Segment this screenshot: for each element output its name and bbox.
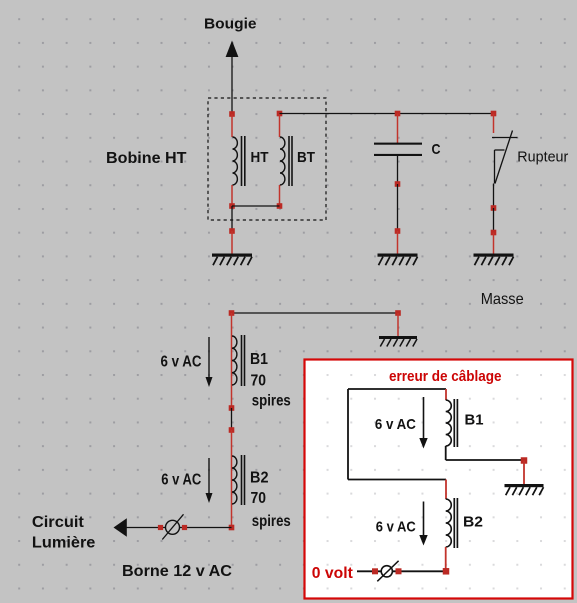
label B2 xyxy=(250,470,269,487)
inset pin B2 bottom xyxy=(445,547,447,571)
label BT xyxy=(297,149,315,166)
inset pin B1 top xyxy=(445,389,447,400)
inset label 6vAC lower xyxy=(376,519,416,536)
connector terminal (Borne) xyxy=(162,514,183,539)
svg-text:erreur de câblage: erreur de câblage xyxy=(389,368,502,385)
label B1 70 xyxy=(251,373,267,390)
node connector left xyxy=(158,525,163,530)
node HT top xyxy=(229,111,235,117)
label Lumiere xyxy=(32,535,96,552)
inductor B2 winding xyxy=(232,455,245,505)
inset label 0 volt xyxy=(312,565,354,582)
node B1 top xyxy=(229,310,235,316)
svg-text:70: 70 xyxy=(251,373,267,390)
svg-text:HT: HT xyxy=(251,149,269,166)
wire B1 top to Masse ground xyxy=(232,312,399,314)
wire HT-BT bottom link xyxy=(232,205,280,207)
label 6vAC lower xyxy=(161,472,201,489)
inset wire bottom horizontal xyxy=(348,479,446,481)
dashed box around Bobine HT xyxy=(208,98,326,220)
wire B2 red run xyxy=(231,430,233,528)
inductor BT winding xyxy=(280,136,292,186)
svg-text:Masse: Masse xyxy=(481,291,524,308)
inset node right xyxy=(521,457,528,464)
wire B1-B2 link xyxy=(231,408,233,430)
inset connector terminal xyxy=(377,561,398,582)
pin ground 1 xyxy=(231,231,233,255)
ground under capacitor xyxy=(378,254,418,266)
svg-text:0 volt: 0 volt xyxy=(312,565,354,582)
wire bottom feed xyxy=(126,527,232,529)
label B1 spires xyxy=(252,393,291,410)
pin ground 3 xyxy=(493,233,495,255)
svg-text:70: 70 xyxy=(251,490,267,507)
inset arrow 6vAC upper xyxy=(419,397,427,449)
inset wire B1 bottom xyxy=(446,446,524,460)
capacitor C xyxy=(374,143,422,156)
inset node connector left xyxy=(372,568,378,574)
label Masse xyxy=(481,291,524,308)
inset arrow 6vAC lower xyxy=(419,502,427,546)
svg-text:spires: spires xyxy=(252,513,291,530)
inset box white fill xyxy=(304,359,573,599)
inset pin B2 top xyxy=(445,480,447,500)
node below capacitor xyxy=(395,181,401,187)
pin ground 2 xyxy=(397,231,399,255)
wire capacitor bottom xyxy=(397,156,399,184)
inset node B2 bottom xyxy=(443,568,450,575)
node BT top xyxy=(277,111,283,117)
arrow to Circuit Lumiere xyxy=(114,518,127,536)
svg-text:Borne 12 v AC: Borne 12 v AC xyxy=(122,563,232,580)
ground under transformer xyxy=(212,254,252,266)
pin Masse ground xyxy=(397,313,399,337)
label Bobine HT xyxy=(106,150,187,167)
inset ground xyxy=(505,484,544,495)
inset red border box xyxy=(305,360,573,599)
label B2 spires xyxy=(252,513,291,530)
ground Masse xyxy=(379,336,417,347)
svg-text:B1: B1 xyxy=(250,351,268,368)
inset label B2 xyxy=(463,514,483,531)
label 6vAC upper xyxy=(161,354,202,371)
node capacitor top xyxy=(395,111,401,117)
label B2 70 xyxy=(251,490,267,507)
inset inductor B2 xyxy=(446,498,458,548)
arrow 6vAC upper xyxy=(206,337,213,387)
label Rupteur xyxy=(517,149,568,166)
svg-text:6 v AC: 6 v AC xyxy=(376,519,416,536)
inset wire top xyxy=(348,388,446,390)
inductor HT winding xyxy=(233,136,245,186)
wire Rupteur bottom xyxy=(493,184,495,209)
svg-text:C: C xyxy=(432,141,441,158)
label Borne 12 v AC xyxy=(122,563,232,580)
svg-text:B1: B1 xyxy=(465,412,484,429)
label HT xyxy=(251,149,269,166)
label Circuit xyxy=(32,514,85,531)
wire B1 red run xyxy=(231,313,233,408)
svg-text:Bougie: Bougie xyxy=(204,16,257,33)
pin BT bottom xyxy=(279,185,281,206)
node B2 bottom junction xyxy=(229,525,235,531)
svg-text:B2: B2 xyxy=(250,470,269,487)
node HT bottom xyxy=(229,203,235,209)
inset label B1 xyxy=(465,412,484,429)
svg-text:6 v AC: 6 v AC xyxy=(375,416,416,433)
inset box dot-lightening overlay xyxy=(304,359,573,599)
node BT bottom xyxy=(277,203,283,209)
pin capacitor top xyxy=(397,114,399,144)
label Bougie xyxy=(204,16,257,33)
node Rupteur top xyxy=(491,111,497,117)
label C xyxy=(432,141,441,158)
inductor B1 winding xyxy=(232,335,245,386)
pin BT top xyxy=(279,114,281,138)
svg-text:Lumière: Lumière xyxy=(32,535,96,552)
wire Rupteur to ground node xyxy=(493,208,495,233)
svg-text:BT: BT xyxy=(297,149,315,166)
wire top bus BT to Rupteur xyxy=(280,113,494,115)
arrow 6vAC lower xyxy=(206,458,213,503)
node B2 top xyxy=(229,427,235,433)
label B1 xyxy=(250,351,268,368)
inset wire 0 volt xyxy=(357,570,446,572)
wire capacitor to ground node xyxy=(397,184,399,231)
svg-text:spires: spires xyxy=(252,393,291,410)
inset wire left vertical xyxy=(347,389,349,480)
inset label 6vAC upper xyxy=(375,416,416,433)
pin Rupteur top xyxy=(493,114,495,134)
svg-text:B2: B2 xyxy=(463,514,483,531)
wire HT bottom to ground node xyxy=(231,206,233,231)
node below Rupteur xyxy=(491,205,497,211)
svg-text:6 v AC: 6 v AC xyxy=(161,354,202,371)
pin HT bottom xyxy=(231,185,233,206)
breaker Rupteur symbol xyxy=(492,131,518,184)
svg-text:6 v AC: 6 v AC xyxy=(161,472,201,489)
node connector right xyxy=(182,525,187,530)
arrow to spark plug (Bougie) xyxy=(226,41,239,115)
node Masse junction xyxy=(395,310,401,316)
node above ground 3 xyxy=(491,230,497,236)
pin HT top xyxy=(231,114,233,137)
inset inductor B1 xyxy=(446,399,458,447)
svg-text:Rupteur: Rupteur xyxy=(517,149,568,166)
node above ground 2 xyxy=(395,228,401,234)
node above ground 1 xyxy=(229,228,235,234)
node B1 bottom xyxy=(229,405,235,411)
inset title erreur de cablage xyxy=(389,368,502,385)
svg-text:Circuit: Circuit xyxy=(32,514,85,531)
svg-text:Bobine HT: Bobine HT xyxy=(106,150,187,167)
inset pin ground xyxy=(523,461,525,485)
ground under Rupteur xyxy=(474,254,514,266)
inset node connector right xyxy=(396,568,402,574)
